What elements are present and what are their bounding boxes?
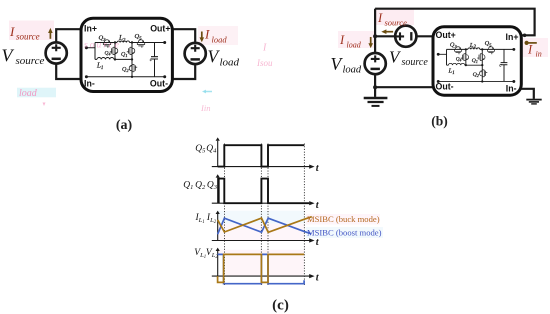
svg-text:I: I — [204, 27, 210, 42]
wire In- stub to ground — [522, 89, 534, 99]
wire to V_source b — [375, 35, 395, 37]
waveform IL buck (orange) — [218, 217, 312, 233]
waveform IL boost (blue) — [218, 218, 312, 234]
svg-text:source: source — [402, 57, 429, 68]
axis row Q1Q2Q3 — [212, 178, 311, 204]
svg-text:source: source — [385, 17, 408, 27]
wire V_source to In- — [56, 63, 81, 79]
ghost artifact pink halo I_in — [520, 38, 548, 57]
svg-text:source: source — [84, 41, 121, 51]
voltage source V_source — [46, 42, 67, 63]
svg-text:Out-: Out- — [150, 78, 168, 88]
axis row IL — [212, 214, 311, 241]
wire Out- to V_load — [172, 64, 195, 79]
node In+ stub — [523, 34, 527, 38]
voltage source V_source b — [395, 26, 416, 47]
svg-text:In-: In- — [84, 79, 95, 89]
svg-text:I: I — [377, 11, 383, 25]
wire left bus — [374, 9, 376, 54]
ghost artifact pink halo I_source — [9, 21, 54, 41]
svg-text:Out+: Out+ — [436, 30, 456, 40]
arrow I_load b down — [370, 37, 372, 45]
svg-text:load: load — [220, 57, 240, 69]
svg-text:Out-: Out- — [436, 82, 454, 92]
wire Out+ to V_load — [172, 29, 195, 43]
ground right — [526, 99, 541, 101]
wire V_load b to ground and Out- — [374, 74, 376, 97]
converter inner circuit (a) — [85, 33, 166, 79]
ghost artifact pink halo I_load — [198, 26, 238, 45]
svg-text:I: I — [527, 43, 533, 57]
svg-text:I: I — [9, 24, 15, 39]
svg-text:Isou: Isou — [256, 58, 273, 68]
converter box (b) — [433, 27, 521, 96]
axis row Q5Q4 — [212, 141, 311, 167]
svg-text:I: I — [262, 43, 267, 54]
waveform VL boost (blue) — [218, 254, 305, 283]
wire top loop — [375, 9, 534, 36]
svg-text:Out+: Out+ — [150, 23, 170, 33]
svg-text:In+: In+ — [84, 24, 97, 34]
svg-text:load: load — [347, 41, 362, 50]
arrow I_source b left — [385, 31, 393, 33]
current label I_in — [525, 41, 529, 45]
wire V_source to In+ — [56, 29, 81, 43]
waveform VL buck (orange) — [218, 254, 305, 282]
svg-text:source: source — [16, 55, 45, 67]
ghost artifact cyan arrow + pink Iin below I_load — [204, 91, 212, 93]
svg-text:in: in — [536, 50, 542, 59]
ghost artifact pink halo I_source b — [376, 10, 414, 26]
dashed time markers — [225, 144, 305, 286]
converter inner circuit (b) — [437, 40, 516, 83]
arrow I_source up — [49, 32, 51, 39]
svg-text:In+: In+ — [506, 32, 519, 42]
axis row VL — [212, 251, 311, 276]
svg-text:(a): (a) — [116, 118, 133, 133]
current label I_load — [201, 32, 203, 39]
svg-text:In-: In- — [506, 83, 517, 93]
svg-text:(c): (c) — [272, 298, 289, 314]
node junction — [373, 34, 377, 38]
svg-text:source: source — [16, 32, 40, 42]
waveform Q1 Q2 Q3 — [219, 179, 309, 204]
svg-text:load: load — [212, 35, 228, 45]
svg-text:Iin: Iin — [200, 103, 210, 113]
tint bands — [218, 211, 304, 224]
ghost artifact cyan band + pink 'load' — [17, 88, 56, 98]
voltage source V_load — [185, 43, 206, 64]
svg-text:(b): (b) — [431, 114, 448, 129]
ghost artifact pink halo I_load b — [338, 31, 374, 48]
svg-text:MSIBC (buck mode): MSIBC (buck mode) — [307, 214, 380, 224]
waveform Q5 Q4 — [218, 145, 305, 166]
voltage source V_load b — [365, 53, 386, 74]
ground left — [364, 97, 388, 99]
svg-text:I: I — [339, 33, 345, 47]
converter box (a) — [81, 18, 172, 91]
svg-text:load: load — [343, 65, 362, 76]
svg-text:load: load — [19, 88, 38, 99]
svg-text:MSIBC (boost mode): MSIBC (boost mode) — [307, 228, 382, 238]
